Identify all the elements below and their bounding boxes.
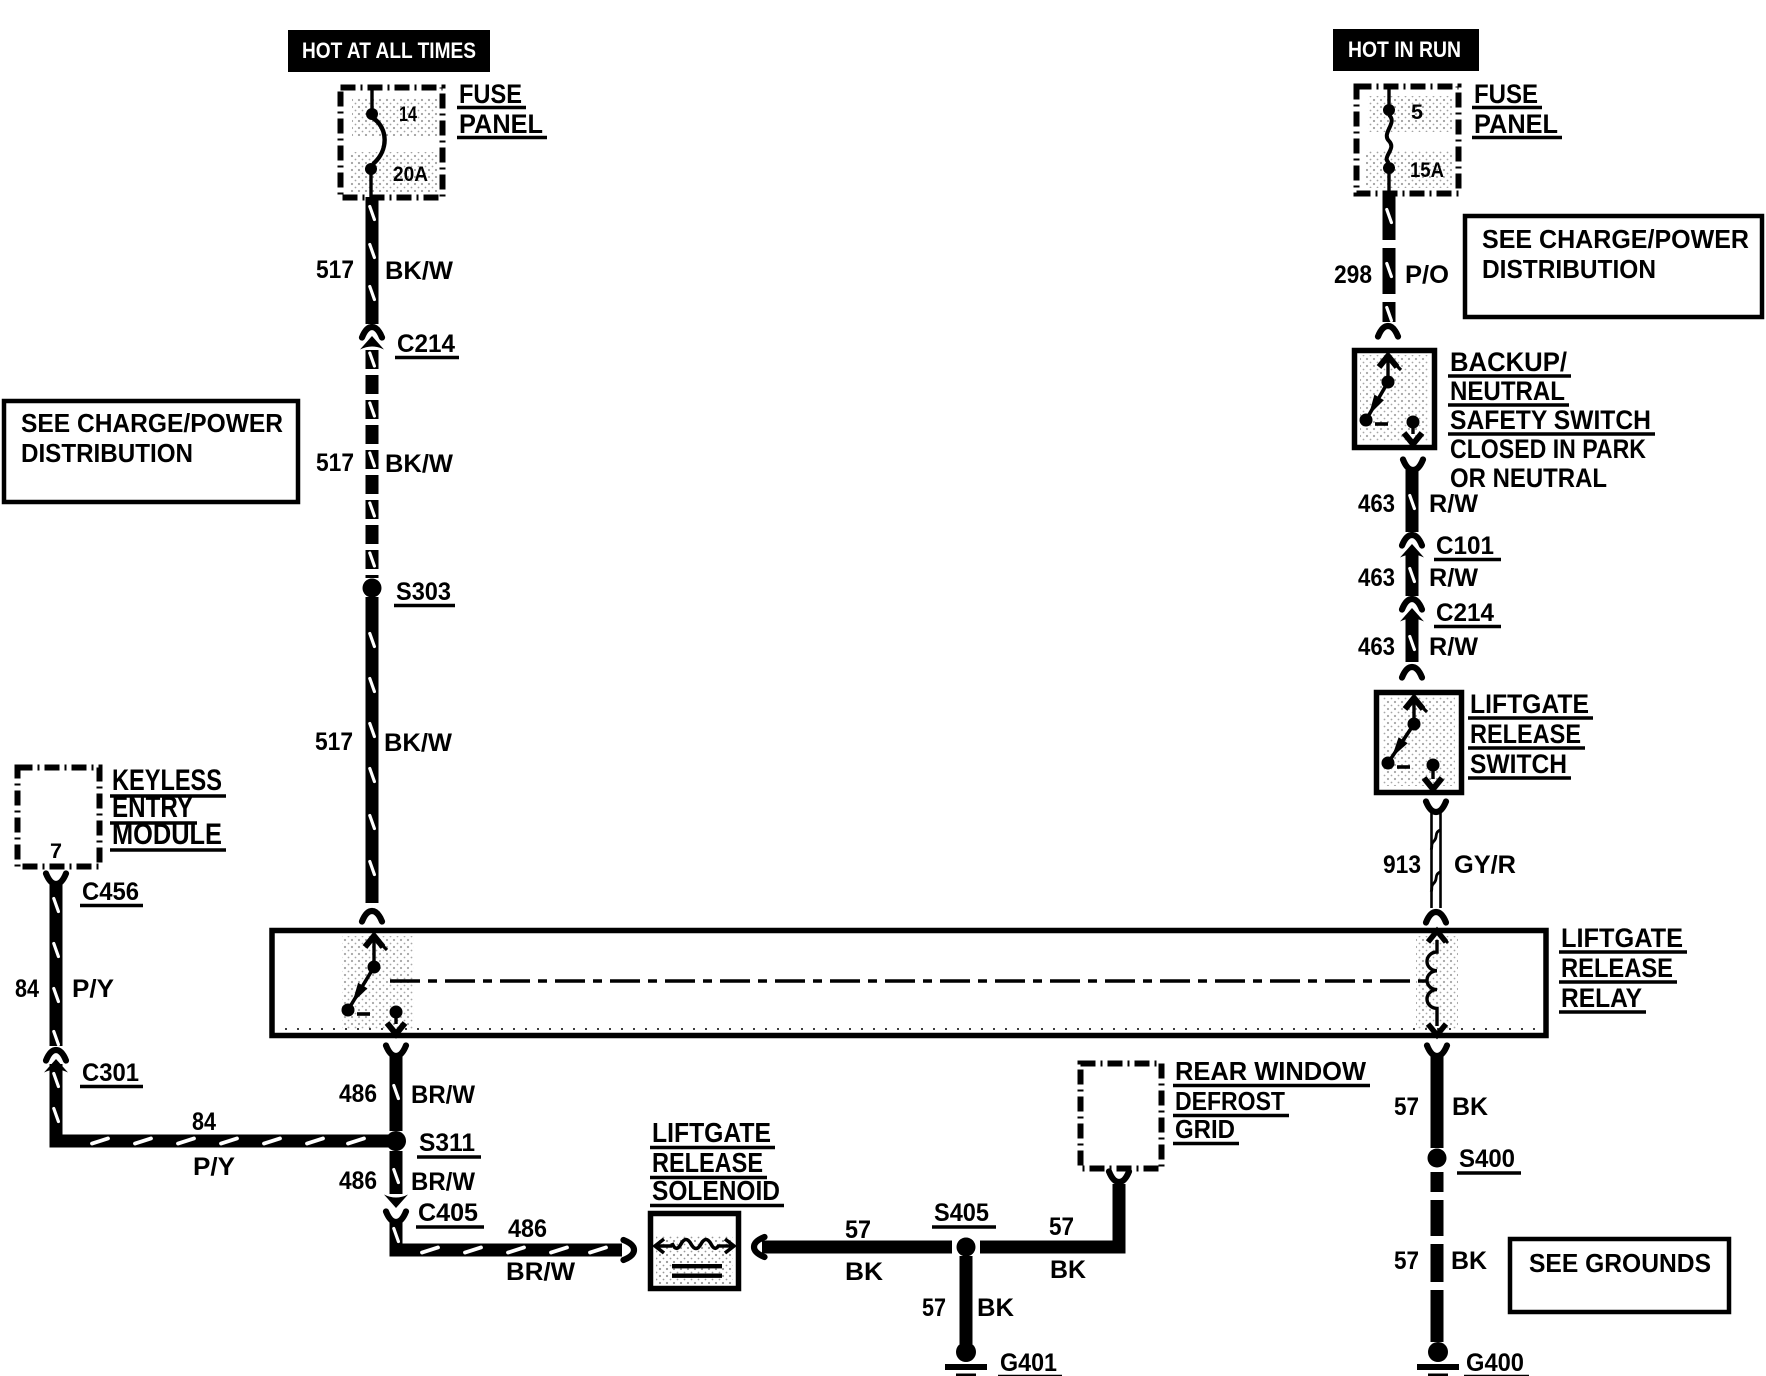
- svg-text:S400: S400: [1459, 1145, 1515, 1173]
- stipple relay switch area: [342, 936, 414, 1030]
- svg-text:913: 913: [1383, 851, 1421, 879]
- relay internal dotted bottom line: [285, 1028, 1538, 1030]
- svg-text:5: 5: [1411, 101, 1423, 124]
- svg-text:PANEL: PANEL: [459, 109, 543, 139]
- svg-text:S303: S303: [396, 578, 451, 606]
- wire 57 BK (relay to S400): [1431, 1056, 1444, 1148]
- svg-text:486: 486: [339, 1167, 377, 1195]
- connector C301: [46, 1050, 66, 1061]
- svg-text:517: 517: [316, 449, 354, 477]
- svg-text:S311: S311: [419, 1129, 475, 1157]
- ground G401: [956, 1342, 976, 1362]
- wire 463 R/W (switch to C101): [1406, 470, 1419, 532]
- svg-text:RELAY: RELAY: [1561, 983, 1642, 1013]
- wire 517 BK/W (fuse panel to C214): [366, 197, 379, 324]
- stipple fuse right: [1368, 96, 1452, 132]
- splice S405: [957, 1238, 976, 1257]
- stipple relay coil area: [1416, 936, 1458, 1030]
- svg-text:R/W: R/W: [1429, 490, 1478, 518]
- wire 84 P/Y (C456 to C301): [50, 884, 63, 1046]
- wire 57 BK (S405 to G401): [960, 1256, 973, 1344]
- svg-text:GRID: GRID: [1175, 1114, 1235, 1144]
- svg-text:BK: BK: [1452, 1093, 1488, 1121]
- svg-text:517: 517: [316, 256, 354, 284]
- svg-text:57: 57: [845, 1216, 871, 1244]
- note box SEE CHARGE/POWER DISTRIBUTION (right): [1465, 216, 1762, 317]
- connector C405 (arrow down into cup): [384, 1195, 408, 1209]
- svg-text:CLOSED IN PARK: CLOSED IN PARK: [1450, 434, 1646, 464]
- fuse panel box (right, dashed): [1357, 87, 1459, 194]
- svg-text:463: 463: [1358, 564, 1395, 592]
- svg-text:486: 486: [508, 1215, 547, 1243]
- svg-text:7: 7: [50, 840, 62, 863]
- svg-text:15A: 15A: [1410, 159, 1444, 182]
- connector C214 (right): [1402, 599, 1422, 610]
- svg-text:SOLENOID: SOLENOID: [652, 1175, 780, 1206]
- svg-text:PANEL: PANEL: [1474, 109, 1558, 139]
- svg-text:84: 84: [15, 975, 39, 1003]
- rear window defrost grid box (dashed): [1081, 1064, 1162, 1169]
- note box SEE GROUNDS: [1510, 1239, 1729, 1312]
- svg-text:C214: C214: [397, 330, 455, 358]
- relay internal dash-dot link line: [390, 979, 1430, 983]
- fuse panel box (left, dashed): [341, 88, 443, 198]
- connector half at solenoid (right): [754, 1237, 765, 1257]
- svg-text:MODULE: MODULE: [112, 818, 222, 851]
- connector half below liftgate switch: [1426, 802, 1446, 813]
- wire 57 BK (S405 to defrost grid, L-bend): [980, 1184, 1119, 1247]
- svg-text:P/Y: P/Y: [72, 975, 114, 1003]
- svg-text:BK: BK: [1451, 1247, 1487, 1275]
- power label HOT AT ALL TIMES: [288, 30, 490, 72]
- svg-text:BR/W: BR/W: [411, 1081, 475, 1109]
- fuse F5 15A symbol: [1387, 89, 1390, 106]
- wire 57 BK (S400 to G400, dashed): [1431, 1172, 1444, 1192]
- svg-text:298: 298: [1334, 261, 1372, 289]
- wire 463 R/W (C214 to liftgate switch): [1406, 615, 1419, 662]
- stipple solenoid interior: [656, 1236, 733, 1284]
- svg-text:LIFTGATE: LIFTGATE: [1470, 689, 1589, 719]
- svg-text:BACKUP/: BACKUP/: [1450, 347, 1567, 377]
- connector half above relay (right): [1426, 912, 1446, 923]
- splice S311: [386, 1131, 406, 1151]
- svg-text:57: 57: [1394, 1093, 1419, 1121]
- svg-text:SEE CHARGE/POWER: SEE CHARGE/POWER: [21, 408, 283, 438]
- svg-text:84: 84: [192, 1108, 216, 1136]
- connector half below defrost grid: [1109, 1172, 1129, 1183]
- svg-text:BK/W: BK/W: [385, 257, 453, 285]
- keyless entry module box (dashed): [18, 768, 100, 867]
- svg-text:C405: C405: [418, 1199, 478, 1227]
- wire 517 BK/W (S303 to relay): [366, 597, 379, 903]
- svg-text:P/Y: P/Y: [193, 1153, 235, 1181]
- svg-text:DISTRIBUTION: DISTRIBUTION: [1482, 254, 1656, 284]
- svg-text:SWITCH: SWITCH: [1470, 749, 1567, 779]
- wire 486 BR/W (C405 to solenoid, L-bend): [396, 1221, 622, 1250]
- svg-text:SEE CHARGE/POWER: SEE CHARGE/POWER: [1482, 224, 1749, 254]
- svg-text:FUSE: FUSE: [1474, 79, 1538, 109]
- liftgate release switch contacts: [1412, 698, 1415, 724]
- svg-text:S405: S405: [934, 1199, 989, 1227]
- ground G400: [1428, 1342, 1448, 1362]
- svg-text:RELEASE: RELEASE: [1561, 953, 1673, 983]
- svg-text:DEFROST: DEFROST: [1175, 1086, 1285, 1116]
- svg-text:C456: C456: [82, 878, 139, 906]
- svg-text:57: 57: [1049, 1213, 1074, 1241]
- wire 486 BR/W (S311 to C405): [390, 1151, 403, 1194]
- connector half at solenoid (left): [624, 1240, 635, 1260]
- svg-text:BK: BK: [845, 1258, 883, 1286]
- svg-text:C101: C101: [1436, 532, 1494, 560]
- liftgate release relay box: [272, 931, 1546, 1036]
- svg-text:BR/W: BR/W: [411, 1168, 475, 1196]
- wire 84 P/Y (C301 to S311, L-bend): [56, 1064, 392, 1141]
- svg-text:486: 486: [339, 1080, 377, 1108]
- svg-text:BR/W: BR/W: [506, 1258, 575, 1286]
- svg-text:FUSE: FUSE: [459, 79, 522, 109]
- svg-text:SAFETY SWITCH: SAFETY SWITCH: [1450, 405, 1651, 435]
- wire 486 BR/W (relay to S311): [390, 1056, 403, 1131]
- stipple liftgate switch: [1382, 697, 1455, 786]
- connector half below relay (left): [386, 1046, 406, 1057]
- backup/neutral safety switch box: [1355, 351, 1435, 448]
- connector half below backup switch: [1403, 460, 1423, 471]
- svg-text:57: 57: [1394, 1247, 1419, 1275]
- svg-text:REAR WINDOW: REAR WINDOW: [1175, 1056, 1366, 1086]
- wire 913 GY/R (twisted thin pair): [1430, 812, 1433, 908]
- svg-text:LIFTGATE: LIFTGATE: [652, 1117, 771, 1148]
- connector half below relay (right): [1427, 1046, 1447, 1057]
- note box SEE CHARGE/POWER DISTRIBUTION (left): [4, 401, 298, 502]
- wire 517 BK/W (C214 to S303, dashed): [366, 350, 379, 369]
- splice S303: [363, 579, 382, 598]
- relay coil: [1427, 940, 1437, 1026]
- svg-text:BK: BK: [1050, 1256, 1086, 1284]
- relay internal switch: [372, 936, 375, 967]
- svg-text:RELEASE: RELEASE: [1470, 719, 1581, 749]
- svg-text:R/W: R/W: [1429, 564, 1478, 592]
- svg-text:HOT AT ALL TIMES: HOT AT ALL TIMES: [302, 38, 476, 63]
- stipple backup switch: [1360, 355, 1429, 441]
- connector C101: [1402, 535, 1422, 546]
- svg-text:DISTRIBUTION: DISTRIBUTION: [21, 438, 193, 468]
- wire 463 R/W (C101 to C214): [1406, 551, 1419, 596]
- svg-text:C214: C214: [1436, 599, 1494, 627]
- svg-text:NEUTRAL: NEUTRAL: [1450, 376, 1565, 406]
- svg-text:463: 463: [1358, 633, 1395, 661]
- svg-text:C301: C301: [82, 1059, 139, 1087]
- svg-text:P/O: P/O: [1405, 261, 1449, 289]
- svg-text:14: 14: [399, 103, 417, 126]
- connector half into relay (left top): [362, 911, 382, 922]
- connector C214 (left): [362, 327, 382, 338]
- splice S400: [1428, 1149, 1447, 1168]
- svg-text:SEE GROUNDS: SEE GROUNDS: [1529, 1248, 1711, 1278]
- stipple fuse left: [352, 98, 438, 136]
- svg-text:57: 57: [922, 1294, 946, 1322]
- svg-text:463: 463: [1358, 490, 1395, 518]
- liftgate release solenoid box: [651, 1214, 739, 1289]
- wire 57 BK (solenoid to S405): [762, 1241, 952, 1254]
- svg-text:RELEASE: RELEASE: [652, 1147, 763, 1178]
- svg-text:GY/R: GY/R: [1454, 851, 1516, 879]
- svg-text:20A: 20A: [393, 163, 428, 186]
- fuse F14 20A symbol: [370, 90, 373, 110]
- power label HOT IN RUN: [1333, 29, 1479, 71]
- solenoid internal symbol: [655, 1239, 664, 1253]
- wire 298 P/O (fuse panel down, dashed): [1383, 194, 1396, 240]
- svg-text:R/W: R/W: [1429, 633, 1478, 661]
- connector half C456 (cup below module): [46, 874, 66, 885]
- svg-text:BK: BK: [977, 1294, 1014, 1322]
- backup/neutral safety switch contacts: [1386, 356, 1389, 382]
- svg-text:G401: G401: [1000, 1349, 1057, 1376]
- svg-text:HOT IN RUN: HOT IN RUN: [1348, 37, 1461, 62]
- svg-text:BK/W: BK/W: [384, 729, 452, 757]
- svg-text:G400: G400: [1466, 1349, 1524, 1376]
- connector half above backup switch: [1378, 326, 1398, 337]
- liftgate release switch box: [1377, 693, 1462, 793]
- svg-text:517: 517: [315, 728, 353, 756]
- svg-text:BK/W: BK/W: [385, 450, 453, 478]
- svg-text:OR NEUTRAL: OR NEUTRAL: [1450, 463, 1607, 493]
- connector half above liftgate switch: [1402, 667, 1422, 678]
- svg-text:LIFTGATE: LIFTGATE: [1561, 923, 1683, 953]
